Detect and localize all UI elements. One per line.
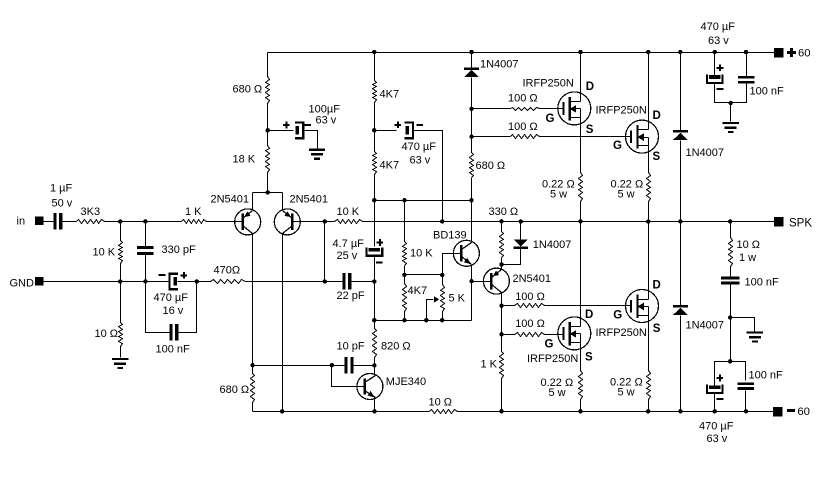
resistor 680ohm vas load: [470, 153, 506, 178]
svg-text:1 µF: 1 µF: [50, 183, 73, 195]
node Q2 coll rail: [280, 409, 284, 413]
capacitor 1uF input: [50, 183, 73, 230]
svg-text:S: S: [586, 124, 594, 136]
wire in to C1: [44, 221, 54, 223]
svg-text:680 Ω: 680 Ω: [233, 84, 263, 96]
svg-text:10 Ω: 10 Ω: [429, 397, 453, 409]
wire to 100uF: [268, 130, 294, 132]
svg-text:10 Ω: 10 Ω: [737, 239, 761, 251]
label M2 pins: [613, 110, 661, 163]
node Q3 emitter: [499, 262, 503, 266]
svg-text:S: S: [585, 352, 593, 364]
svg-text:50 v: 50 v: [52, 197, 73, 209]
wire comp down: [374, 282, 376, 329]
node clamp rail: [678, 50, 682, 54]
node M2 drain rail: [646, 50, 650, 54]
wire 5K bot: [442, 312, 444, 321]
svg-text:D: D: [586, 81, 594, 93]
wire 100n top down: [731, 83, 747, 103]
node 330pF bottom: [143, 279, 147, 283]
svg-text:D: D: [585, 309, 593, 321]
node diode rail: [469, 50, 473, 54]
wire 100-3 right: [545, 334, 564, 336]
wire 18K to emitters: [267, 173, 269, 193]
svg-text:GND: GND: [10, 278, 35, 290]
wire M4 drain: [648, 222, 650, 300]
svg-text:680 Ω: 680 Ω: [220, 384, 250, 396]
capacitor 4.7uF 25v: [333, 238, 384, 264]
node comp node: [372, 279, 376, 283]
svg-text:5 w: 5 w: [618, 189, 635, 201]
node 470u bot rail: [713, 409, 717, 413]
svg-text:4K7: 4K7: [380, 160, 400, 172]
svg-text:100 nF: 100 nF: [749, 370, 784, 382]
svg-text:63 v: 63 v: [708, 35, 729, 47]
node rail 4K7: [372, 50, 376, 54]
wire 1K to rail: [501, 379, 503, 412]
wire 100n bot down: [745, 391, 747, 412]
wire clamp lower top: [680, 222, 682, 306]
svg-text:820 Ω: 820 Ω: [381, 341, 411, 353]
svg-text:5 K: 5 K: [449, 293, 466, 305]
node clamp rail bot: [678, 409, 682, 413]
wire M3 drain: [580, 222, 582, 327]
wire 470u top: [714, 53, 716, 76]
wire 330 top: [501, 222, 503, 232]
wire 1K to Q1 base: [207, 221, 243, 223]
node 470u top rail: [713, 50, 717, 54]
svg-text:3K3: 3K3: [81, 206, 101, 218]
wire Q3 emitter: [501, 265, 503, 270]
wire M1 drain: [580, 53, 582, 102]
wire 100uF to ground: [304, 131, 318, 149]
wire M2 source: [648, 146, 650, 173]
wire 4.7uF down: [374, 256, 376, 282]
resistor 10K input: [93, 241, 123, 264]
node VAS collector: [372, 363, 376, 367]
wire zobel top: [730, 222, 732, 238]
resistor 100ohm gate1: [508, 93, 540, 111]
wire 100-1 right: [540, 108, 564, 110]
capacitor 330pF: [137, 244, 196, 256]
svg-text:G: G: [613, 140, 622, 152]
node comp mid: [372, 318, 376, 322]
wire 0.22-1 to bus: [580, 202, 582, 222]
node zobel gnd tap: [728, 315, 732, 319]
wire 0.22-4 to rail: [648, 400, 650, 412]
svg-text:1N4007: 1N4007: [533, 239, 572, 251]
resistor 4K7 upper: [373, 81, 400, 103]
node gnd line at 10K: [118, 279, 122, 283]
svg-text:G: G: [545, 338, 554, 350]
resistor 4K7 lower: [373, 152, 400, 175]
wire -60 rail left: [253, 411, 430, 413]
wire 0.22-3 to rail: [580, 400, 582, 412]
label M3 pins: [545, 309, 594, 364]
wire diode to gates: [471, 78, 473, 153]
node wiper: [424, 318, 428, 322]
node 100n top rail: [744, 50, 748, 54]
wire 100-2 left: [472, 136, 511, 138]
svg-text:MJE340: MJE340: [386, 376, 426, 388]
node MJE base tap: [330, 363, 334, 367]
resistor 10ohm rail: [429, 397, 458, 414]
resistor 100ohm gate2: [508, 121, 540, 139]
svg-text:S: S: [653, 151, 661, 163]
wire 100-4 left: [502, 305, 515, 307]
svg-text:G: G: [613, 310, 622, 322]
svg-text:2N5401: 2N5401: [513, 273, 552, 285]
wire M3 source: [580, 343, 582, 371]
svg-text:100 Ω: 100 Ω: [515, 318, 545, 330]
capacitor 100uF 63v: [283, 104, 340, 138]
node feedback cap: [195, 279, 199, 283]
wire 100-2 right: [540, 136, 632, 138]
svg-text:330 pF: 330 pF: [162, 244, 197, 256]
wire VAS column: [374, 201, 376, 247]
svg-text:100 nF: 100 nF: [156, 344, 191, 356]
svg-text:BD139: BD139: [433, 230, 467, 242]
transistor Q3 2N5401: [483, 268, 551, 294]
svg-text:SPK: SPK: [789, 218, 812, 230]
GND terminal: [10, 277, 44, 289]
wire Q1 emitter: [252, 193, 254, 211]
svg-text:1N4007: 1N4007: [686, 147, 725, 159]
resistor 1K driver: [481, 352, 504, 379]
node bootstrap left: [372, 128, 376, 132]
resistor 100ohm gate4: [515, 291, 545, 308]
wire Q3 collector: [501, 294, 503, 352]
wire 22pF to node: [352, 281, 375, 283]
node M1 on output: [578, 219, 582, 223]
node 5K top tie: [440, 273, 444, 277]
node 5K bot: [440, 318, 444, 322]
input terminal 'in': [17, 216, 44, 228]
node M1 drain rail: [578, 50, 582, 54]
capacitor 100nF top: [738, 76, 784, 97]
wire 680ohm top drop: [267, 53, 269, 77]
wire diode bottom: [502, 249, 521, 265]
mosfet M2 IRFP250N: [596, 105, 659, 154]
wire 330pF drop: [145, 222, 147, 282]
diode 1N4007 lower clamp: [673, 305, 724, 331]
resistor 680ohm top: [233, 77, 270, 104]
wire Q1 collector: [252, 234, 254, 366]
mosfet M1 IRFP250N: [523, 78, 591, 125]
diode 1N4007 gate upper: [464, 59, 518, 77]
transistor Q1 2N5401: [211, 193, 261, 235]
resistor 1K input: [182, 206, 207, 223]
svg-text:1 K: 1 K: [185, 206, 202, 218]
svg-text:1N4007: 1N4007: [686, 319, 725, 331]
transistor MJE340: [357, 374, 426, 400]
svg-text:680 Ω: 680 Ω: [476, 160, 506, 172]
ground decouple top: [723, 122, 739, 133]
svg-text:1 w: 1 w: [739, 252, 756, 264]
wire emitter tie: [253, 192, 283, 194]
wire MJE emitter: [374, 398, 376, 412]
wire clamp upper bot: [680, 141, 682, 222]
node bias mid: [402, 273, 406, 277]
wire 330 ohm bottom: [501, 258, 503, 265]
capacitor 100nF bottom: [738, 370, 783, 390]
resistor 330ohm: [489, 206, 519, 257]
node gate drive upper: [499, 304, 503, 308]
svg-text:100 Ω: 100 Ω: [515, 291, 545, 303]
node 680/18K junction: [266, 128, 270, 132]
potentiometer 5K: [441, 285, 466, 312]
svg-text:63 v: 63 v: [410, 154, 431, 166]
node M2 on output: [646, 219, 650, 223]
transistor Q2 2N5401: [274, 193, 328, 235]
capacitor 10pF: [337, 340, 365, 373]
wire C1 to R 3K3: [63, 221, 77, 223]
wire decouple gnd stem: [730, 103, 732, 122]
capacitor 470uF 63v top: [701, 21, 736, 90]
mosfet M4 IRFP250N: [596, 290, 659, 340]
label M4 pins: [613, 280, 661, 335]
svg-text:1N4007: 1N4007: [480, 59, 519, 71]
svg-text:10 K: 10 K: [337, 206, 360, 218]
resistor 0.22 M3: [541, 371, 583, 400]
wire 10ohm drop: [120, 282, 122, 358]
wire M1 source: [580, 118, 582, 173]
svg-text:470Ω: 470Ω: [214, 265, 241, 277]
wire 470u top down: [715, 83, 731, 103]
svg-text:5 w: 5 w: [550, 189, 567, 201]
wire 100-4 right: [545, 305, 632, 307]
node diode on output: [519, 219, 523, 223]
svg-text:100 Ω: 100 Ω: [508, 121, 538, 133]
node BD139 emitter: [469, 279, 473, 283]
svg-text:18 K: 18 K: [233, 154, 256, 166]
wire zobel mid: [730, 267, 732, 277]
node decouple tie bot: [728, 359, 732, 363]
wire 10pF right: [354, 365, 375, 367]
svg-text:IRFP250N: IRFP250N: [596, 105, 647, 117]
diode 1N4007 clamp: [513, 239, 571, 251]
wire gnd line: [44, 281, 170, 283]
svg-text:470 µF: 470 µF: [701, 21, 736, 33]
svg-text:10 Ω: 10 Ω: [95, 328, 119, 340]
node emitter tie: [266, 190, 270, 194]
node Q1 coll to comp: [250, 363, 254, 367]
wire 4K7 to tie: [374, 175, 376, 201]
wire 470ohm to 22pF: [246, 281, 343, 283]
wire diode top: [520, 222, 522, 240]
wire BD139 emitter: [471, 265, 473, 282]
capacitor 470uF 63v bottom: [699, 375, 734, 445]
wire 820 to coll: [374, 358, 376, 366]
+60 supply terminal: [774, 48, 811, 60]
node NFB junction: [323, 279, 327, 283]
label M1 pins: [546, 81, 595, 136]
svg-text:4.7 µF: 4.7 µF: [333, 238, 365, 250]
node gate1 feed: [469, 107, 473, 111]
node 100n bot rail: [744, 409, 748, 413]
svg-text:5 w: 5 w: [618, 386, 635, 398]
svg-text:60: 60: [797, 406, 810, 418]
node 330pF top: [143, 219, 147, 223]
ground zobel: [747, 331, 763, 342]
capacitor 100nF feedback: [156, 324, 191, 355]
wire clamp lower bot: [680, 316, 682, 412]
resistor 10ohm 1w zobel: [729, 238, 761, 267]
svg-text:S: S: [653, 323, 661, 335]
node M3 rail: [578, 409, 582, 413]
wire 5K pot top: [442, 275, 444, 285]
wire 10K to 4K7: [404, 266, 406, 284]
resistor 3K3: [77, 206, 105, 223]
svg-text:470 µF: 470 µF: [402, 141, 437, 153]
capacitor 22pF: [337, 273, 365, 302]
wire MJE base: [332, 366, 365, 387]
ground 100uF: [309, 149, 325, 160]
wire 100-1 left: [472, 108, 511, 110]
wire M2 drain: [648, 53, 650, 130]
svg-text:in: in: [17, 216, 26, 228]
wire comp line: [253, 365, 345, 367]
diode 1N4007 upper clamp: [673, 130, 724, 159]
svg-text:63 v: 63 v: [707, 433, 728, 445]
wire zobel bot: [730, 285, 732, 362]
svg-text:2N5401: 2N5401: [211, 193, 250, 205]
-60 supply terminal: [773, 406, 810, 418]
wire MJE collector: [374, 366, 376, 376]
svg-text:2N5401: 2N5401: [290, 193, 329, 205]
svg-text:5 w: 5 w: [549, 387, 566, 399]
svg-text:D: D: [653, 110, 661, 122]
wire tie to 470u bot: [715, 362, 731, 386]
wire 100-3 left: [502, 334, 515, 336]
node MJE emitter rail: [372, 409, 376, 413]
node NFB on bus: [323, 219, 327, 223]
wire bias 10K top: [404, 201, 406, 242]
wire 680 to 18K: [267, 104, 269, 146]
svg-text:4K7: 4K7: [408, 285, 428, 297]
svg-text:10 K: 10 K: [410, 248, 433, 260]
node VAS collector feed: [469, 198, 473, 202]
bypass loop wire: [146, 282, 197, 333]
wire bias bottom line: [375, 320, 472, 322]
wire bias to BD139 emitter: [471, 282, 473, 321]
capacitor 470uF 63v bootstrap: [394, 121, 436, 166]
node gate drive lower: [499, 332, 503, 336]
resistor 100ohm gate3: [515, 318, 545, 336]
node zobel on output: [728, 219, 732, 223]
wire rail to 4K7: [374, 53, 376, 81]
wire 100n top: [746, 53, 748, 77]
wire boot cap left: [375, 130, 397, 132]
ground input: [112, 358, 128, 369]
svg-text:470 µF: 470 µF: [154, 292, 189, 304]
resistor 18K: [233, 146, 270, 173]
resistor 820ohm: [373, 329, 411, 358]
wire 10K to gnd line: [120, 222, 122, 282]
node 1K rail: [499, 409, 503, 413]
node bootstrap on output: [440, 219, 444, 223]
resistor 470ohm feedback: [211, 265, 246, 284]
svg-text:10 pF: 10 pF: [337, 340, 365, 352]
svg-text:1 K: 1 K: [481, 358, 498, 370]
svg-text:10 K: 10 K: [93, 247, 116, 259]
svg-text:IRFP250N: IRFP250N: [527, 353, 578, 365]
wire BD139 base L: [443, 254, 461, 275]
wire 0.22-2 to bus: [648, 202, 650, 222]
node 330 on output: [499, 219, 503, 223]
svg-text:100 nF: 100 nF: [745, 276, 780, 288]
node M4 rail: [646, 409, 650, 413]
resistor 680ohm comp: [220, 374, 255, 403]
svg-text:330 Ω: 330 Ω: [489, 206, 519, 218]
wire boot cap right: [414, 131, 443, 222]
wire 680 comp bottom: [252, 403, 254, 412]
wire -60 rail right: [458, 411, 774, 413]
wire BD139 collector: [471, 178, 473, 243]
wire Q2 base to 10K: [292, 221, 335, 223]
wire 680 comp top: [252, 366, 254, 374]
wire +60 rail: [268, 52, 775, 54]
svg-text:63 v: 63 v: [316, 114, 337, 126]
svg-text:60: 60: [798, 48, 811, 60]
svg-text:D: D: [653, 280, 661, 292]
resistor 0.22 M2: [611, 173, 651, 202]
node clamp on output: [678, 219, 682, 223]
wire 4K7 mid: [374, 103, 376, 152]
wire clamp upper top: [680, 53, 682, 131]
node bias bot: [402, 318, 406, 322]
wire Q2 collector: [282, 234, 284, 412]
wire tie to 100n bot: [731, 362, 746, 381]
wire 4K7 bias bot: [404, 312, 406, 321]
wire VAS tie: [375, 200, 472, 202]
wire NFB up: [324, 222, 326, 282]
node bias top: [402, 198, 406, 202]
wire C470u to node: [178, 281, 211, 283]
transistor BD139: [433, 230, 479, 267]
wire bias mid tie: [405, 274, 443, 276]
wire diode rail: [471, 53, 473, 68]
svg-text:IRFP250N: IRFP250N: [523, 78, 574, 90]
capacitor 470uF 16v feedback: [154, 272, 189, 317]
svg-text:IRFP250N: IRFP250N: [596, 327, 647, 339]
node input bias: [118, 219, 122, 223]
wire Q2 emitter: [282, 193, 284, 211]
svg-text:G: G: [546, 113, 555, 125]
node decouple gnd top: [729, 101, 733, 105]
wire 3K3 to 1K: [105, 221, 182, 223]
resistor 4K7 bias: [403, 284, 428, 312]
svg-text:100 nF: 100 nF: [750, 85, 785, 97]
capacitor 100nF zobel: [721, 276, 779, 288]
pot wiper arrow: [427, 296, 440, 320]
wire 10K fb to output line: [363, 221, 775, 223]
resistor 10K bias: [403, 242, 434, 266]
wire Q3 base: [472, 281, 492, 283]
SPK output terminal: [774, 217, 812, 230]
resistor 0.22 M1: [542, 173, 583, 202]
svg-text:16 v: 16 v: [163, 305, 184, 317]
resistor 10K feedback: [335, 206, 363, 224]
node VAS feed: [372, 198, 376, 202]
svg-text:470 µF: 470 µF: [699, 421, 734, 433]
svg-text:100 Ω: 100 Ω: [508, 93, 538, 105]
resistor 0.22 M4: [610, 371, 651, 400]
svg-text:4K7: 4K7: [380, 89, 400, 101]
svg-text:25 v: 25 v: [337, 250, 358, 262]
svg-text:22 pF: 22 pF: [337, 290, 365, 302]
wire zobel gnd: [731, 318, 755, 332]
